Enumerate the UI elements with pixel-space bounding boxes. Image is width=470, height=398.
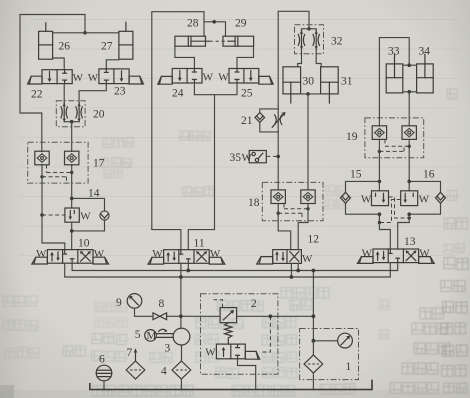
valve 24 (2/2 solenoid valve) — [158, 69, 202, 85]
wire: valve 23 to throttle box 20 — [79, 84, 106, 104]
hydraulic lock 18 (twin pilot-operated check valves) — [262, 182, 323, 220]
wire: cyl26 bottom to valve 22 — [53, 58, 65, 70]
check bypass of sequence valve 16 — [409, 181, 445, 214]
check bypass of sequence valve 15 — [341, 181, 380, 214]
unloading valve — [216, 344, 259, 359]
wire through relief valve — [237, 315, 314, 317]
spring below relief — [225, 323, 232, 344]
wire: 17 left branch down to valve 10 port A — [42, 165, 65, 250]
wire: rod-end line of cylinders 26/27 to left drop — [20, 15, 85, 152]
wire: cyl 28 left end to valve 24 — [175, 46, 195, 68]
node above valve 14 — [70, 197, 74, 201]
valve 22 (2/2 solenoid valve) — [28, 70, 73, 84]
riser: pump to valve 11 port A — [180, 263, 182, 328]
wire: lower bus (pressure) — [65, 263, 391, 277]
cross pilot lines of 15/16 — [379, 197, 409, 223]
sequence valve 15 — [372, 191, 389, 206]
wire: throttles down to cylinders 30/31 — [298, 49, 302, 67]
wire: rod chambers connector — [403, 64, 417, 66]
pressure gauge — [338, 333, 353, 348]
cylinder 30 — [283, 67, 301, 103]
wire: cyl27 bottom to valve 23 — [106, 60, 119, 69]
return filter — [304, 355, 323, 373]
hydraulic lock 17 (twin pilot-operated check valves) — [28, 142, 88, 183]
node: pilot tap of valve 14 — [40, 213, 44, 217]
valve 25 (2/2 solenoid valve, mirrored) — [229, 69, 273, 85]
electric motor 5 — [145, 329, 174, 341]
cylinder 28 — [175, 36, 210, 46]
node: junction on rod line — [83, 31, 87, 35]
wires: lock 18 down to valve 12 — [278, 204, 291, 250]
breather 6 — [96, 365, 112, 381]
pressure switch 35 — [249, 151, 280, 163]
wire: rod-side top line — [379, 38, 409, 126]
wire: top line B feeding cylinders 28/29 — [152, 12, 226, 229]
valve 10 (4/3 solenoid directional valve) — [32, 248, 109, 264]
valve 13 (4/3 solenoid directional valve) — [357, 247, 434, 263]
wire: 14 down to valve 10 port B — [71, 222, 73, 249]
wire: cyl 29 right end to valve 25 — [237, 46, 254, 68]
valve 23 (2/2 solenoid valve, mirrored) — [99, 69, 144, 84]
wire: top line C — [278, 11, 309, 106]
strainer 7 — [126, 361, 145, 379]
sequence valve 16 — [401, 191, 418, 206]
wire: connector between cyl 26 and 27 — [53, 32, 119, 34]
cylinder 31 — [321, 67, 339, 103]
hydraulic lock 19 — [365, 118, 424, 158]
bypass check valve of 14 — [72, 198, 109, 231]
remote pilot line — [260, 316, 271, 352]
wire: 17 right branch down to reducing valve 14 — [71, 165, 73, 209]
pressure reducing valve 14 — [65, 208, 79, 222]
cylinder 29 — [223, 36, 254, 46]
wire: piston chambers connector and drop — [403, 91, 417, 93]
tank line — [90, 380, 372, 390]
relief valve — [220, 308, 237, 323]
valve 12 drops — [290, 263, 292, 277]
wire: pressure line to relief block — [167, 315, 221, 317]
wire: upper bus (return) — [72, 263, 398, 271]
valve 12 (4/2 solenoid valve) — [257, 250, 302, 264]
valve 11 drops — [187, 263, 189, 270]
wire: valves 24/25 join and drop to valve 11 port B — [188, 83, 237, 250]
twin throttle box 32 — [295, 25, 324, 54]
stop valve 8 — [135, 308, 154, 316]
wire: long A line down to valve 11 port A — [152, 229, 181, 250]
twin throttle valves 20 — [56, 101, 85, 127]
cylinder 34 — [417, 54, 434, 93]
wire: cylinder bottoms join, drop to lock 18 — [301, 93, 321, 95]
cylinder 26 — [39, 23, 53, 59]
cylinder 27 — [119, 22, 133, 59]
wires: lock 19 down — [378, 139, 380, 190]
return branch to filter box 1 — [312, 271, 314, 356]
pressure gauge 9 — [127, 294, 142, 309]
drain to tank — [238, 359, 256, 390]
suction filter 4 — [181, 345, 183, 361]
cylinder 33 — [386, 54, 403, 93]
valve 11 (4/3 solenoid directional valve) — [148, 248, 225, 264]
hydraulic pump 3 — [173, 328, 190, 345]
wire: valve 22 to throttle box 20 — [63, 84, 65, 104]
wire: box 20 to hydraulic lock 17 — [71, 122, 73, 152]
wire: line down past pressure switch 35 — [277, 106, 279, 132]
rod gap dashes between 28 and 29 — [210, 40, 229, 42]
wires: 15/16 down to valve 13 — [378, 212, 382, 216]
one-way throttle 21 — [260, 109, 278, 132]
